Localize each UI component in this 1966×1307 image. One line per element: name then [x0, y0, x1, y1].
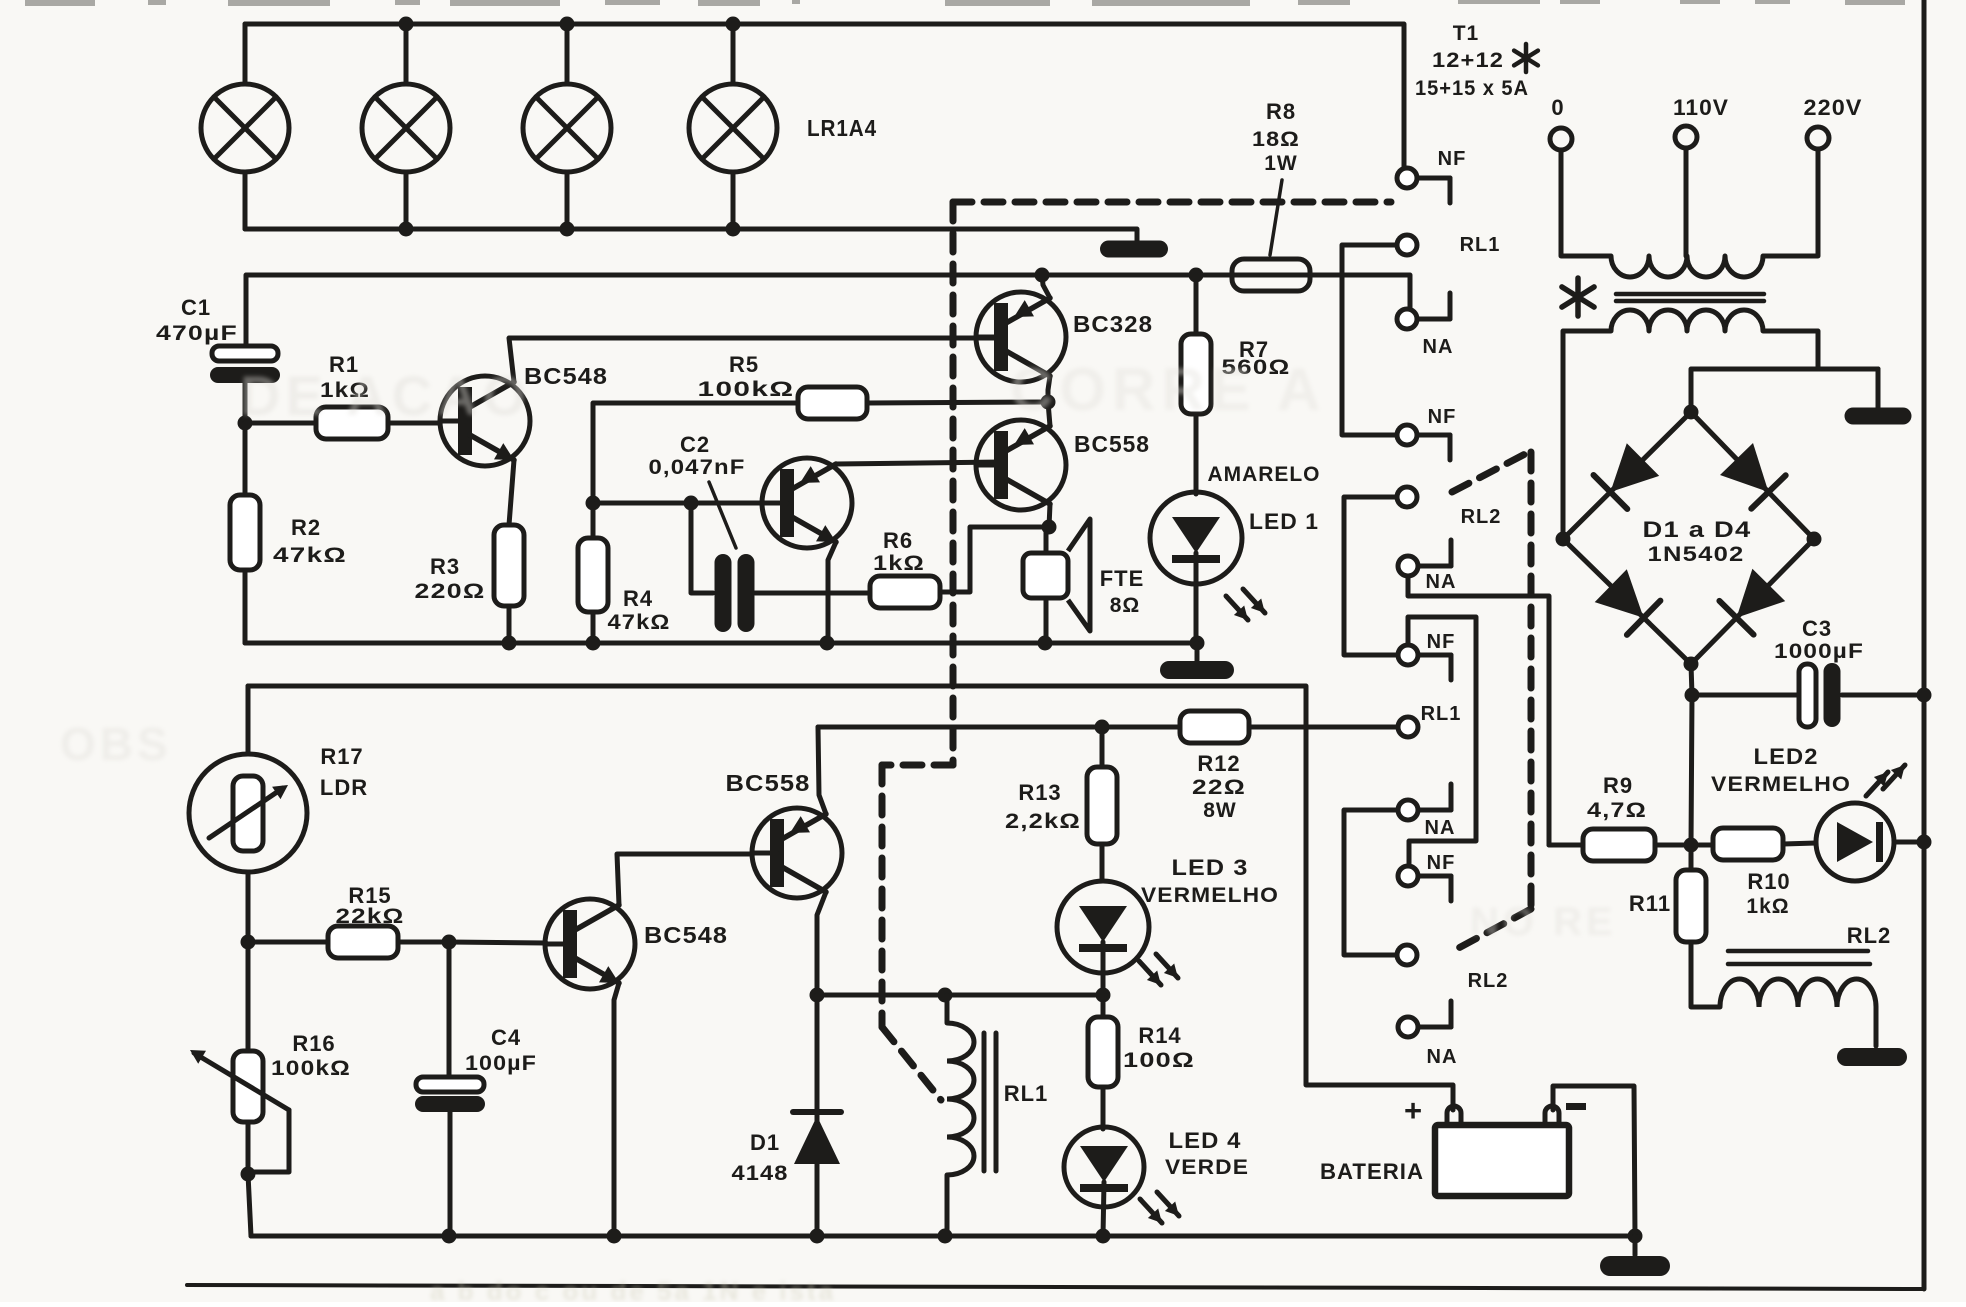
label R13: [1005, 780, 1081, 833]
dashed jog: [882, 765, 953, 1027]
resistor R6: [870, 576, 940, 608]
relay contact RL1 NF (lamps): [1397, 168, 1450, 203]
svg-text:1kΩ: 1kΩ: [1746, 895, 1789, 918]
resistor R10: [1713, 828, 1783, 860]
label RL2 c5: [1461, 506, 1502, 528]
relay contact RL2 NF: [1398, 645, 1451, 680]
wire left column LDR: [246, 686, 251, 754]
svg-text:R12: R12: [1197, 751, 1240, 776]
label RL1 c8: [1421, 703, 1462, 725]
relay contact RL1 NF bottom: [1398, 866, 1451, 901]
resistor R12: [1180, 711, 1249, 743]
svg-text:RL2: RL2: [1461, 506, 1502, 528]
svg-text:1W: 1W: [1264, 152, 1298, 175]
wire R14 top: [1101, 995, 1106, 1017]
svg-text:RL1: RL1: [1421, 703, 1462, 725]
svg-text:LED2: LED2: [1754, 744, 1819, 769]
svg-text:110V: 110V: [1673, 95, 1729, 120]
wire Q5 collector down to node: [1041, 376, 1056, 410]
svg-text:LDR: LDR: [320, 775, 368, 800]
label RL2 c11: [1468, 970, 1509, 992]
label NF c1: [1438, 148, 1467, 170]
terminator bar on lamp return: [1100, 241, 1168, 258]
svg-text:1N5402: 1N5402: [1648, 543, 1745, 566]
resistor R9: [1583, 829, 1655, 861]
relay coil RL2: [1720, 979, 1876, 1046]
transformer core: [1616, 294, 1764, 301]
wire C2 right to R6: [755, 591, 870, 596]
wire R13 top: [1100, 727, 1105, 767]
LED LED1 amarelo: [1150, 492, 1242, 643]
wire LDR to R15 node: [241, 872, 256, 950]
label NF c7: [1427, 631, 1456, 653]
svg-text:0,047nF: 0,047nF: [649, 456, 746, 479]
label R10: [1746, 869, 1790, 918]
svg-text:0: 0: [1551, 95, 1564, 120]
label VERDE: [1165, 1156, 1249, 1179]
svg-text:C1: C1: [181, 295, 211, 320]
wire R12 rail: [818, 720, 1398, 735]
LED LED2 vermelho: [1816, 803, 1894, 881]
label LED 4: [1169, 1128, 1242, 1153]
label R4: [608, 586, 671, 634]
svg-text:1kΩ: 1kΩ: [873, 552, 925, 575]
label R17 LDR: [320, 744, 368, 800]
dashed armature RL2 upper: [1452, 452, 1529, 492]
wire C1 to R2: [243, 423, 248, 495]
relay contact RL1 common lower: [1398, 717, 1418, 737]
wire Q3 emitter down: [614, 983, 619, 1236]
label R16: [271, 1031, 351, 1080]
resistor R7: [1181, 334, 1211, 414]
svg-text:12+12: 12+12: [1432, 49, 1504, 72]
wire Q4 collector down: [1042, 504, 1057, 535]
svg-text:8W: 8W: [1203, 799, 1237, 822]
wire R4 to ground rail: [591, 612, 596, 643]
label C4: [465, 1025, 537, 1075]
svg-text:4148: 4148: [732, 1162, 789, 1185]
wire bracket RL2 common-NF: [1344, 497, 1398, 655]
wire Q2 base rail: [586, 496, 786, 511]
label NF c4: [1428, 406, 1457, 428]
terminal 110V: [1673, 95, 1729, 148]
svg-text:RL1: RL1: [1460, 234, 1501, 256]
relay contact RL2 NA: [1398, 540, 1451, 576]
lamp LP4 (LR1A4): [689, 24, 777, 229]
svg-text:T1: T1: [1453, 22, 1480, 45]
svg-text:LED 4: LED 4: [1169, 1128, 1242, 1153]
svg-text:LED 3: LED 3: [1172, 855, 1249, 880]
wire to C2 left plate: [691, 503, 713, 593]
svg-text:2,2kΩ: 2,2kΩ: [1005, 810, 1081, 833]
label T1: [1453, 22, 1480, 45]
ground bar battery: [1600, 1236, 1670, 1276]
resistor R5: [798, 387, 867, 419]
dashed boundary vertical: [950, 202, 957, 765]
svg-text:R11: R11: [1629, 891, 1671, 916]
label R11: [1629, 891, 1671, 916]
svg-text:C2: C2: [680, 432, 710, 457]
svg-text:R6: R6: [883, 528, 913, 553]
capacitor C4: [415, 1077, 485, 1112]
wire node to Q4 emitter: [1048, 402, 1050, 426]
LED LED3 vermelho: [1057, 881, 1149, 973]
ghost print bleed-through: [60, 356, 1617, 1306]
label LED 3: [1172, 855, 1249, 880]
svg-text:47kΩ: 47kΩ: [608, 611, 671, 634]
terminal 220V: [1804, 95, 1863, 149]
wire Q5 emitter up: [1042, 275, 1050, 298]
svg-text:CORRE A: CORRE A: [1010, 356, 1326, 423]
ground bar RL2: [1837, 1048, 1907, 1066]
svg-text:a b do c ou de 5a 1N e ist: a b do c ou de 5a 1N e ista: [430, 1276, 836, 1302]
bridge diode lower-right: [1719, 569, 1785, 635]
resistor R15: [328, 926, 398, 958]
LDR R17: [189, 754, 307, 872]
label R2: [273, 515, 347, 567]
wire lamp return bottom: [245, 222, 1137, 243]
transistor Q6 BC558: [752, 808, 842, 898]
wire battery minus: [1553, 1086, 1635, 1236]
svg-text:NF: NF: [1428, 406, 1457, 428]
svg-text:OBS: OBS: [60, 718, 172, 770]
bottom ground rail: [251, 1229, 1643, 1244]
svg-text:RL2: RL2: [1468, 970, 1509, 992]
transistor Q5 BC328: [976, 292, 1066, 382]
wire bracket RL1 NA-RL2: [1344, 810, 1398, 955]
wire R14 to LED4: [1101, 1087, 1106, 1129]
label VERMELHO led3: [1141, 884, 1279, 907]
relay RL1 core: [984, 1033, 996, 1171]
wire R7 to LED1: [1194, 414, 1199, 494]
dashed armature RL1: [882, 1027, 941, 1100]
label NF c10: [1427, 852, 1456, 874]
wire W1 top feed to lamps and transformer: [245, 17, 1404, 169]
label RL1 coil: [1004, 1081, 1049, 1106]
svg-text:NA: NA: [1425, 817, 1456, 839]
wire Q1 collector to Q5 base: [509, 338, 1001, 382]
wire W2 to R7: [1194, 275, 1199, 334]
svg-text:R8: R8: [1266, 99, 1296, 124]
svg-text:BC548: BC548: [524, 363, 608, 389]
label R12: [1192, 751, 1246, 822]
resistor R8 (fuse style): [1232, 259, 1310, 291]
potentiometer R16: [190, 1050, 289, 1172]
resistor R4: [578, 538, 608, 612]
svg-text:15+15 x 5A: 15+15 x 5A: [1415, 77, 1529, 100]
battery BATERIA: [1435, 1106, 1569, 1196]
svg-text:R10: R10: [1747, 869, 1790, 894]
svg-text:D1 a D4: D1 a D4: [1643, 517, 1752, 542]
label R14: [1123, 1023, 1195, 1072]
bridge diode lower-left: [1595, 569, 1661, 635]
svg-text:BC328: BC328: [1073, 311, 1153, 337]
svg-text:R13: R13: [1018, 780, 1061, 805]
svg-text:R14: R14: [1138, 1023, 1181, 1048]
wire speaker bottom: [1044, 598, 1049, 643]
relay contact RL1 common: [1397, 235, 1417, 255]
label minus: [1566, 1103, 1586, 1110]
resistor R14: [1088, 1017, 1118, 1087]
label BC548 Q1: [524, 363, 608, 389]
label VERMELHO led2: [1711, 773, 1851, 796]
wire R10 to LED2: [1783, 843, 1816, 844]
label 12+12: [1432, 44, 1538, 72]
capacitor C1: [210, 346, 280, 431]
svg-text:AMARELO: AMARELO: [1208, 463, 1321, 486]
label BC328: [1073, 311, 1153, 337]
lamp LP1 (LR1A4): [201, 24, 289, 229]
label R5: [698, 352, 795, 401]
svg-text:NA: NA: [1427, 1046, 1458, 1068]
svg-text:VERDE: VERDE: [1165, 1156, 1249, 1179]
label NA c3: [1423, 336, 1454, 358]
transistor Q4 BC558: [976, 420, 1066, 510]
transformer T1 secondary: [1563, 310, 1818, 539]
label R9: [1587, 773, 1647, 822]
svg-text:+: +: [1404, 1093, 1422, 1128]
label R3: [415, 554, 486, 603]
label D1: [732, 1130, 789, 1185]
LED1 emission arrows: [1226, 589, 1265, 620]
transistor Q3 BC548: [545, 899, 635, 989]
svg-text:R9: R9: [1603, 773, 1633, 798]
wire Q3 collector to Q6 base: [617, 854, 751, 905]
label LR1A4: [807, 115, 877, 141]
wire bottom return: [187, 1285, 1924, 1289]
label NA c12: [1427, 1046, 1458, 1068]
resistor R3: [494, 525, 524, 606]
svg-text:VERMELHO: VERMELHO: [1711, 773, 1851, 796]
relay contact RL2 common: [1397, 487, 1417, 507]
svg-text:4,7Ω: 4,7Ω: [1587, 799, 1647, 822]
svg-text:BC558: BC558: [726, 770, 811, 796]
bridge diode upper-right: [1720, 443, 1786, 509]
svg-text:NF: NF: [1427, 852, 1456, 874]
LED2 emission arrows: [1866, 765, 1905, 796]
label R7: [1222, 337, 1291, 379]
wire relay node rail: [817, 988, 1105, 1003]
label 15+15 x 5A: [1415, 77, 1529, 100]
transistor Q1 BC548: [440, 376, 530, 466]
wire right bus: [1922, 0, 1927, 1289]
label R15: [336, 883, 405, 928]
svg-text:470µF: 470µF: [156, 322, 238, 345]
wire secondary to bridge top: [1691, 369, 1878, 412]
speaker FTE 8ohm: [1023, 519, 1090, 631]
capacitor C2: [715, 554, 755, 632]
wire R9 left: [1549, 843, 1583, 848]
label R1: [320, 352, 370, 402]
resistor R1: [316, 407, 388, 439]
wire C4: [449, 942, 450, 1236]
relay RL2 core: [1728, 951, 1870, 964]
label R6: [873, 528, 925, 575]
svg-text:R17: R17: [320, 744, 363, 769]
wire bridge bottom to C3 rail: [1685, 664, 1932, 703]
svg-text:RL1: RL1: [1004, 1081, 1049, 1106]
label RL2 coil: [1847, 923, 1892, 948]
label C1: [156, 295, 238, 345]
cropped print at top edge: [25, 0, 1905, 6]
label asterisk core: [1562, 278, 1594, 316]
wire LED4 to bottom rail: [1103, 1182, 1104, 1236]
transformer T1 primary: [1561, 148, 1818, 277]
wire R15 wiring: [248, 935, 546, 950]
relay contact RL2 common bottom: [1397, 945, 1417, 965]
label C3: [1774, 616, 1864, 663]
label NA c9: [1425, 817, 1456, 839]
oscillator ground rail: [245, 636, 1205, 651]
svg-text:FTE: FTE: [1100, 566, 1145, 591]
LED3 emission arrows: [1139, 954, 1178, 985]
svg-text:VERMELHO: VERMELHO: [1141, 884, 1279, 907]
wire base Q1: [245, 421, 440, 426]
svg-text:47kΩ: 47kΩ: [273, 544, 347, 567]
resistor R11: [1676, 870, 1706, 942]
label RL1 c2: [1460, 234, 1501, 256]
label NA c6: [1426, 571, 1457, 593]
label AMARELO: [1208, 463, 1321, 486]
wire R16 to bottom rail: [241, 1122, 256, 1236]
label BC548 Q3: [644, 922, 728, 948]
bridge arms D1..D4: [1556, 405, 1822, 672]
dashed armature RL2 lower: [1453, 909, 1531, 951]
svg-text:NA: NA: [1426, 571, 1457, 593]
wire R9 to R10: [1655, 843, 1713, 848]
wire R9 node to R11: [1689, 845, 1694, 870]
wire node to R16: [246, 942, 251, 1051]
transistor Q2: [762, 458, 852, 548]
svg-text:R3: R3: [430, 554, 460, 579]
wire R4 top: [591, 503, 596, 538]
svg-text:R2: R2: [291, 515, 321, 540]
dashed boundary horizontal: [953, 199, 1391, 206]
svg-text:BC548: BC548: [644, 922, 728, 948]
wire LED2 to bus: [1894, 835, 1932, 850]
svg-text:C4: C4: [491, 1025, 521, 1050]
svg-text:NO RE: NO RE: [1470, 900, 1617, 944]
svg-text:NA: NA: [1423, 336, 1454, 358]
lamp LP3 (LR1A4): [523, 24, 611, 229]
svg-text:NF: NF: [1427, 631, 1456, 653]
ground bar secondary: [1845, 369, 1912, 425]
svg-text:R16: R16: [292, 1031, 335, 1056]
label BC558 Q4: [1074, 431, 1150, 457]
lamp LP2 (LR1A4): [362, 24, 450, 229]
wire Q6 emitter up: [818, 727, 826, 814]
label LED 1: [1249, 509, 1319, 534]
resistor R13: [1087, 767, 1117, 844]
svg-text:C3: C3: [1802, 616, 1832, 641]
resistor R2: [230, 495, 260, 570]
label plus: [1404, 1093, 1422, 1128]
wire W3 battery positive rail: [248, 686, 1453, 1110]
ground bar oscillator: [1160, 643, 1234, 679]
label BATERIA: [1320, 1159, 1424, 1184]
svg-text:22kΩ: 22kΩ: [336, 905, 405, 928]
wire R2 to ground rail: [243, 570, 248, 643]
relay contact RL1 NF lower: [1397, 425, 1450, 460]
svg-text:R4: R4: [623, 586, 653, 611]
svg-text:BATERIA: BATERIA: [1320, 1159, 1424, 1184]
wire LED3 to node: [1096, 942, 1111, 1003]
svg-text:R5: R5: [729, 352, 759, 377]
terminal 0: [1550, 95, 1572, 150]
svg-text:100kΩ: 100kΩ: [698, 378, 795, 401]
wire Q6 collector down: [810, 892, 827, 1003]
wire R11 to RL2 coil: [1691, 942, 1720, 1007]
wire C3 node down to R9 node: [1684, 695, 1699, 853]
wire Q2 emitter down: [828, 542, 836, 643]
svg-text:18Ω: 18Ω: [1252, 128, 1300, 151]
label D1 a D4: [1643, 517, 1752, 542]
relay contact RL2 NA bottom: [1398, 1001, 1451, 1037]
wire RL2 NA to charger rail: [1408, 576, 1549, 845]
svg-text:BC558: BC558: [1074, 431, 1150, 457]
wire speaker top: [1044, 527, 1049, 553]
svg-text:220Ω: 220Ω: [415, 580, 486, 603]
relay contact RL1 NA lower: [1398, 784, 1451, 820]
diode D1 1N4148: [793, 995, 841, 1236]
svg-text:8Ω: 8Ω: [1110, 594, 1141, 617]
label C2: [649, 432, 746, 548]
svg-text:D1: D1: [750, 1130, 780, 1155]
svg-text:NF: NF: [1438, 148, 1467, 170]
LED LED4 verde: [1064, 1127, 1144, 1207]
label LED2: [1754, 744, 1819, 769]
LED4 emission arrows: [1140, 1192, 1179, 1223]
wire R6 to speaker node: [940, 527, 1049, 592]
svg-text:100kΩ: 100kΩ: [271, 1057, 351, 1080]
label FTE: [1100, 566, 1145, 617]
svg-text:100µF: 100µF: [465, 1052, 537, 1075]
bridge diode upper-left: [1594, 443, 1660, 509]
wire W2 oscillator supply rail: [246, 268, 1410, 347]
dashed link RL2 vertical: [1528, 452, 1535, 908]
relay contact RL1 NA: [1397, 293, 1450, 329]
svg-text:22Ω: 22Ω: [1192, 776, 1246, 799]
svg-text:DE ACAO: DE ACAO: [240, 364, 531, 427]
capacitor C3: [1799, 663, 1841, 727]
label BC558 Q6: [726, 770, 811, 796]
wire Q1 emitter to R3: [509, 460, 514, 525]
svg-text:LR1A4: LR1A4: [807, 115, 877, 141]
wire R3 to ground rail: [507, 606, 512, 643]
svg-text:RL2: RL2: [1847, 923, 1892, 948]
svg-text:100Ω: 100Ω: [1123, 1049, 1195, 1072]
label 1N5402: [1648, 543, 1745, 566]
svg-text:LED 1: LED 1: [1249, 509, 1319, 534]
wire R5 rail: [593, 402, 1048, 503]
label R8: [1252, 99, 1300, 255]
wire R13 to LED3: [1100, 844, 1105, 881]
wire bracket RL1 common-NF: [1342, 245, 1397, 435]
relay coil RL1: [947, 995, 974, 1236]
wire Q2 collector to Q4 base: [836, 462, 1002, 464]
svg-text:1000µF: 1000µF: [1774, 640, 1864, 663]
svg-text:220V: 220V: [1804, 95, 1863, 120]
wire c7 elbow to c10: [1408, 617, 1476, 866]
